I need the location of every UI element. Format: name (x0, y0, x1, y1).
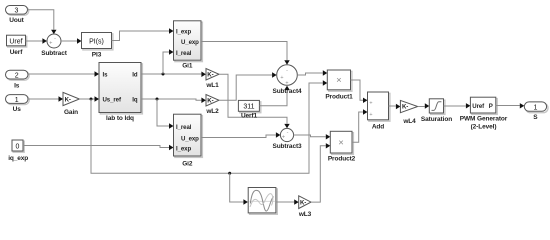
svg-text:PI3: PI3 (92, 51, 102, 58)
wire Product2 to Add (352, 109, 368, 142)
constant 311 (Uerf1) (238, 100, 260, 119)
svg-text:K-: K- (207, 72, 213, 79)
wire Uref to Subtract (26, 38, 47, 43)
gain wL1 (205, 69, 219, 89)
wire Id to wL1 (141, 72, 206, 77)
svg-text:P: P (489, 103, 493, 110)
inport 2 (Is) (6, 70, 30, 89)
subsystem PWM Generator (460, 97, 508, 130)
svg-text:U_exp: U_exp (181, 39, 199, 46)
wire Gain to Us_ref (79, 96, 99, 101)
constant 0 (iq_exp) (8, 140, 28, 162)
wire PWM to outport S (496, 103, 525, 108)
svg-text:I_real: I_real (176, 124, 192, 131)
wire Us branch down to Product1 (91, 80, 327, 174)
svg-text:Us: Us (13, 106, 22, 113)
svg-text:311: 311 (243, 104, 254, 111)
svg-text:U_exp: U_exp (181, 135, 199, 142)
svg-text:I_exp: I_exp (176, 146, 191, 153)
svg-text:Gi1: Gi1 (182, 63, 193, 70)
svg-text:2: 2 (15, 72, 19, 79)
svg-text:Uref: Uref (9, 39, 22, 46)
subsystem lab to Idq (99, 63, 142, 123)
svg-text:I_exp: I_exp (176, 29, 191, 36)
svg-text:K-: K- (402, 104, 408, 111)
wire branch down to waveform block (230, 173, 248, 205)
svg-text:Uerf1: Uerf1 (241, 113, 258, 120)
svg-text:×: × (338, 137, 344, 148)
svg-text:Gain: Gain (64, 109, 78, 116)
svg-text:I_real: I_real (176, 50, 192, 57)
svg-text:1: 1 (533, 104, 537, 111)
sum Subtract (41, 34, 68, 57)
wire waveform to wL3 (276, 199, 299, 204)
transfer-fcn PI3 (82, 33, 113, 59)
inport 3 (Uout) (6, 6, 29, 24)
wire Us to Gain (28, 96, 63, 101)
wire Saturation to PWM (444, 103, 471, 108)
svg-text:K-: K- (300, 199, 306, 206)
svg-text:Uout: Uout (9, 17, 24, 24)
svg-text:wL4: wL4 (402, 118, 416, 125)
wire Iq to wL2 (141, 98, 206, 103)
wire Subtract4 to Product1 (297, 70, 327, 75)
svg-text:×: × (336, 75, 342, 86)
svg-text:Us_ref: Us_ref (103, 96, 122, 103)
wire Iq branch to Gi2 I_real (157, 99, 174, 129)
svg-text:-: - (287, 130, 289, 136)
svg-text:1: 1 (15, 97, 19, 104)
svg-text:Uref: Uref (472, 103, 485, 110)
wire Uout to Subtract top (28, 10, 57, 34)
wire PI3 to Gi1 I_exp (112, 28, 174, 40)
svg-text:+: + (369, 112, 372, 118)
inport 1 (Us) (6, 95, 30, 114)
svg-text:Is: Is (14, 83, 20, 90)
svg-text:Id: Id (132, 71, 138, 78)
svg-text:Uerf: Uerf (10, 49, 24, 56)
svg-text:+: + (282, 135, 285, 141)
svg-text:K-: K- (207, 98, 213, 105)
svg-text:-: - (286, 68, 288, 74)
svg-text:lab to Idq: lab to Idq (106, 115, 134, 122)
sum Subtract3 (272, 128, 302, 149)
wire wL1 to Subtract3 top (219, 74, 290, 128)
svg-text:Product1: Product1 (325, 94, 353, 101)
wire Subtract3 to Product2 (294, 134, 331, 139)
wire wL2 to Subtract4 left (219, 72, 277, 100)
svg-text:+: + (369, 100, 372, 106)
svg-text:K-: K- (65, 96, 71, 103)
wire Subtract to PI3 (61, 38, 82, 43)
wire wL4 to Saturation (418, 103, 430, 108)
outport 1 (S) (524, 102, 548, 121)
wire 311 to Subtract4 bottom (259, 86, 289, 106)
saturation Saturation (421, 99, 452, 123)
wire Is to lab_to_Idq (28, 71, 99, 76)
svg-text:+: + (280, 75, 283, 81)
wire Gi1 U_exp to Subtract4 top (201, 42, 290, 65)
product Product2 (328, 131, 356, 162)
svg-text:S: S (533, 114, 538, 121)
svg-text:+: + (49, 41, 52, 47)
gain Gain (63, 92, 79, 115)
gain wL4 (400, 100, 417, 125)
svg-text:wL1: wL1 (205, 82, 219, 89)
svg-text:Subtract3: Subtract3 (272, 143, 302, 150)
constant Uref (7, 35, 27, 56)
product Product1 (325, 70, 353, 101)
wire Id branch to Gi1 I_real (163, 49, 174, 74)
svg-text:3: 3 (15, 8, 19, 15)
wire iq_exp to Gi2 I_exp (23, 145, 174, 150)
svg-text:wL3: wL3 (298, 211, 312, 218)
wire Product1 to Add (351, 80, 368, 103)
svg-text:Gi2: Gi2 (182, 161, 193, 168)
svg-text:Iq: Iq (132, 96, 138, 103)
svg-text:0: 0 (16, 144, 20, 151)
svg-text:Product2: Product2 (328, 155, 356, 162)
subsystem Gi2 (174, 114, 203, 167)
svg-text:PWM Generator: PWM Generator (460, 116, 508, 123)
subsystem Gi1 (174, 21, 203, 70)
subsystem waveform block (248, 188, 277, 215)
wire Add to wL4 (389, 104, 401, 109)
svg-text:Subtract: Subtract (41, 50, 68, 57)
svg-text:PI(s): PI(s) (89, 38, 104, 45)
sum Add (368, 92, 390, 131)
svg-text:Add: Add (372, 124, 384, 131)
svg-text:(2-Level): (2-Level) (471, 124, 497, 131)
gain wL3 (298, 196, 312, 218)
svg-text:Is: Is (103, 71, 109, 78)
svg-text:iq_exp: iq_exp (8, 155, 28, 162)
gain wL2 (205, 95, 219, 115)
sum Subtract4 (272, 65, 302, 95)
wire wL3 to Product2 (311, 143, 330, 202)
wire Gi2 U_exp to Subtract3 (201, 132, 280, 137)
svg-text:-: - (54, 35, 56, 41)
svg-text:wL2: wL2 (205, 108, 219, 115)
svg-text:Saturation: Saturation (421, 116, 452, 123)
